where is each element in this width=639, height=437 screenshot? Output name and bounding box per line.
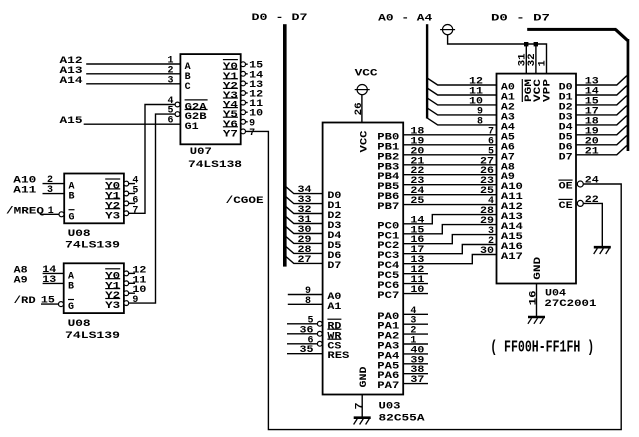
svg-text:82C55A: 82C55A [379,414,425,425]
wire /WR stub to U03 pin 36 [287,325,322,336]
svg-text:VCC: VCC [360,131,371,153]
svg-text:VCC: VCC [355,69,378,80]
wire U04 D4 (pin 18) to right data bus [576,116,627,128]
svg-text:1: 1 [538,60,549,66]
bus tap + wire A2 to U04 pin 10 [427,96,496,107]
label 74LS139 (half 1) [65,240,120,251]
U08a output Y2 pin 6 [124,195,138,206]
svg-text:B: B [68,281,74,292]
net label D0 - D7 (right data bus) [491,13,550,24]
svg-text:37: 37 [410,375,424,386]
wire A14 to U07 pin 3 [60,75,181,87]
U07 output Y1 pin 14 [241,70,263,81]
svg-text:C: C [185,82,191,93]
wire U04 D5 (pin 19) to right data bus [576,126,627,138]
wire U03 PB1 (pin 19) to U04 A6 (pin 6) [403,136,496,147]
svg-text:D7: D7 [559,152,573,163]
wire U04 D2 (pin 15) to right data bus [576,96,627,108]
U07 output Y5 pin 10 [241,109,263,120]
U08b output Y2 pin 10 [124,285,146,296]
pin label 31 [518,53,529,66]
IC U08 74LS139 body (half 2) [64,263,124,313]
svg-text:16: 16 [528,290,539,305]
ground (U04 CE) [594,247,611,254]
U07 output Y3 pin 12 [241,90,263,101]
label U08 (half 2) [68,319,91,330]
power VCC symbol (U04) [440,25,455,35]
wire U04 D6 (pin 20) to right data bus [576,136,627,148]
svg-text:Y3: Y3 [105,211,120,222]
bus D0-D7 vertical (left) [283,24,287,266]
bus corner bevel [616,29,628,40]
svg-text:30: 30 [480,246,494,257]
svg-text:D0 - D7: D0 - D7 [491,13,550,24]
wire /RD stub to U03 pin 5 [287,315,322,326]
wire A12 to U07 pin 1 [60,56,181,68]
IC U04 27C2001 body [497,74,577,284]
U03 PC5 stub pin 12 [403,265,428,276]
svg-text:5: 5 [168,106,174,117]
svg-text:A17: A17 [501,252,523,263]
IC U08 74LS139 body (half 1) [64,174,124,224]
pin label 32 [527,53,538,66]
wire A9 to U08b pin 13 [14,275,64,287]
junction dot (pin 32) [534,42,538,46]
U07 output Y4 pin 11 [241,99,263,110]
wire /CS stub to U03 pin 6 [287,335,322,346]
svg-text:( FF00H-FF1FH ): ( FF00H-FF1FH ) [490,338,594,357]
svg-text:CE: CE [559,201,573,212]
svg-text:PA7: PA7 [377,381,399,392]
svg-text:74LS138: 74LS138 [188,160,242,171]
svg-text:74LS139: 74LS139 [65,331,120,342]
wire A8 to U08b pin 14 [14,265,64,277]
U03 PA6 stub pin 38 [403,365,428,376]
svg-text:/CGOE: /CGOE [226,195,264,207]
label ( FF00H-FF1FH ) [490,338,594,357]
wire U03 PB0 (pin 18) to U04 A5 (pin 7) [403,126,496,137]
bus A0-A4 vertical [426,24,428,118]
svg-text:1: 1 [48,206,54,217]
label U07 [190,147,212,158]
wire U03 PC3 (pin 17) to U04 A16 (pin 2) [403,236,496,256]
wire U04 D0 (pin 13) to right data bus [576,76,627,88]
svg-text:35: 35 [300,345,314,356]
wire U08a Y3 (pin 7) to U07 G2A (pin 4) [129,105,175,214]
IC U07 74LS138 body [180,54,240,144]
svg-text:RES: RES [327,351,349,362]
svg-text:Y3: Y3 [105,301,120,312]
net label D0 - D7 (left data bus) [252,13,308,24]
wire U03 PC4 (pin 13) to U04 A17 (pin 30) [403,246,496,266]
wire U03 PB7 (pin 25) to U04 A12 (pin 4) [403,196,496,207]
U08b output Y1 pin 11 [124,275,146,286]
svg-text:PC7: PC7 [377,291,399,302]
U03 PA4 stub pin 40 [403,345,428,356]
bus D0-D7 horizontal (right) [527,28,616,31]
svg-text:D7: D7 [327,261,341,272]
svg-text:B: B [69,192,75,203]
svg-text:7: 7 [132,205,138,216]
bus tap + wire A0 to U04 pin 12 [427,77,496,88]
bus tap + wire D7 to U03 pin 27 [286,255,323,266]
svg-text:U04: U04 [545,288,566,299]
wire U04 D7 (pin 21) to right data bus [576,146,627,158]
svg-text:OE: OE [559,182,573,193]
svg-text:GND: GND [359,367,370,388]
U03 PA1 stub pin 3 [403,316,428,327]
U08b output Y0 pin 12 [124,265,146,276]
wire U03 PB6 (pin 24) to U04 A11 (pin 25) [403,186,496,197]
junction dot (pin 31) [524,42,528,46]
bus tap + wire A3 to U04 pin 9 [427,106,496,117]
label 27C2001 [544,299,596,310]
wire A15 to U07 pin 6 (G1) [60,116,181,128]
svg-text:A9: A9 [14,275,28,286]
node G2B bubble U07 pin 5 [168,106,180,117]
wire A10 to U08a pin 2 [13,175,64,187]
net label /CGOE [226,195,264,207]
U08a output Y3 pin 7 [124,205,138,216]
U08a output Y0 pin 4 [124,176,138,187]
wire /RD to U08b pin 15 (G) [14,295,64,307]
bus D0-D7 vertical (right) [627,39,630,151]
bus tap + wire A1 to U04 pin 11 [427,87,496,98]
wire U04 pin 16 to ground [528,284,539,318]
node G2A bubble U07 pin 4 [168,96,180,107]
svg-text:3: 3 [168,75,174,86]
wire U03 PC1 (pin 15) to U04 A14 (pin 29) [403,216,496,236]
svg-text:A15: A15 [60,116,83,127]
svg-text:A14: A14 [60,76,83,87]
svg-text:Y7: Y7 [223,129,238,140]
bus tap + wire A4 to U04 pin 8 [427,116,496,127]
svg-text:9: 9 [132,295,138,306]
svg-text:/RD: /RD [14,295,36,307]
ground (U04 pin 16) [528,317,545,324]
svg-text:15: 15 [41,296,55,307]
U03 PA7 stub pin 37 [403,375,428,386]
bus tap + wire D4 to U03 pin 30 [286,225,323,236]
bus tap + wire D1 to U03 pin 33 [286,195,323,206]
svg-text:U08: U08 [68,229,91,240]
svg-text:G: G [68,302,74,313]
svg-text:3: 3 [47,185,53,196]
wire U04 D3 (pin 17) to right data bus [576,106,627,118]
svg-text:PB7: PB7 [377,202,399,213]
wire U03 pin 7 to ground [354,395,365,418]
wire U08b Y3 (pin 9) to U07 G2B (pin 5) [129,114,175,303]
bus tap + wire D0 to U03 pin 34 [286,185,323,196]
U03 PA3 stub pin 1 [403,336,428,347]
IC U03 82C55A body [323,123,404,395]
label 74LS139 (half 2) [65,331,120,342]
label U08 (half 1) [68,229,91,240]
wire U03 PB4 (pin 22) to U04 A9 (pin 26) [403,166,496,177]
svg-text:10: 10 [410,285,424,296]
U04 OE pin 24 [577,176,599,188]
U07 output Y7 pin 7 [241,128,255,139]
svg-text:8: 8 [477,116,483,127]
label U03 [379,401,401,412]
U03 PC6 stub pin 11 [403,275,428,286]
bus tap + wire D3 to U03 pin 31 [286,215,323,226]
svg-text:A0 - A4: A0 - A4 [378,14,432,25]
wire U03 PC2 (pin 16) to U04 A15 (pin 3) [403,226,496,246]
U08b output Y3 pin 9 [124,295,138,306]
svg-text:32: 32 [527,53,538,66]
wire A11 to U08a pin 3 [13,185,64,197]
U03 PA5 stub pin 39 [403,355,428,366]
svg-text:7: 7 [354,403,365,410]
svg-text:8: 8 [305,296,311,307]
svg-text:25: 25 [410,196,424,207]
wire A1 to U03 pin 8 [288,296,323,307]
wire VCC to U04 pins 31,32,1 [448,35,547,74]
svg-text:27: 27 [298,255,312,266]
svg-text:13: 13 [42,275,56,286]
svg-text:6: 6 [168,116,174,127]
wire U03 PB5 (pin 23) to U04 A10 (pin 23) [403,176,496,187]
bus tap + wire D2 to U03 pin 32 [286,205,323,216]
svg-text:/MREQ: /MREQ [6,205,44,217]
svg-text:27C2001: 27C2001 [544,299,596,310]
power VCC symbol (U03) [355,69,378,95]
svg-text:D0 - D7: D0 - D7 [252,13,308,24]
label 82C55A [379,414,425,425]
wire U04 D1 (pin 14) to right data bus [576,86,627,98]
svg-text:7: 7 [249,128,255,139]
U07 output Y6 pin 9 [241,118,255,129]
U04 CE pin 22 [577,195,602,247]
svg-text:U08: U08 [68,319,91,330]
wire U03 PB3 (pin 21) to U04 A8 (pin 27) [403,156,496,167]
ground (U03 pin 7) [354,418,371,425]
svg-text:VPP: VPP [542,79,553,102]
svg-text:26: 26 [354,102,365,115]
wire /RES stub to U03 pin 35 [287,345,323,356]
label 74LS138 [188,160,242,171]
wire U03 PB2 (pin 20) to U04 A7 (pin 5) [403,146,496,157]
svg-text:A1: A1 [327,302,341,313]
bus tap + wire D6 to U03 pin 28 [286,245,323,256]
svg-text:U07: U07 [190,147,212,158]
wire A0 to U03 pin 9 [288,286,323,297]
net label A0 - A4 [378,14,432,25]
U03 PA2 stub pin 2 [403,326,428,337]
wire VCC to U03 pin 26 [354,95,365,123]
svg-text:21: 21 [585,146,599,157]
svg-text:G: G [69,212,75,223]
label U04 [545,288,566,299]
svg-text:U03: U03 [379,401,401,412]
pin label 1 [538,60,549,66]
bus tap + wire D5 to U03 pin 29 [286,235,323,246]
wire A13 to U07 pin 2 [60,65,181,77]
svg-text:A11: A11 [13,186,36,197]
wire /CGOE net: U07 Y7 to bottom rail [246,131,622,429]
U08a output Y1 pin 5 [124,186,138,197]
U03 PA0 stub pin 4 [403,306,428,317]
U07 output Y0 pin 15 [241,61,263,72]
svg-text:74LS139: 74LS139 [65,240,120,251]
U07 output Y2 pin 13 [241,80,263,91]
wire U03 PC0 (pin 14) to U04 A13 (pin 28) [403,206,496,226]
svg-text:24: 24 [585,176,599,187]
wire /MREQ to U08a pin 1 (G) [6,205,64,217]
svg-text:22: 22 [585,195,599,206]
U03 PC7 stub pin 10 [403,285,428,296]
svg-text:G1: G1 [185,122,199,133]
svg-text:GND: GND [533,257,544,280]
